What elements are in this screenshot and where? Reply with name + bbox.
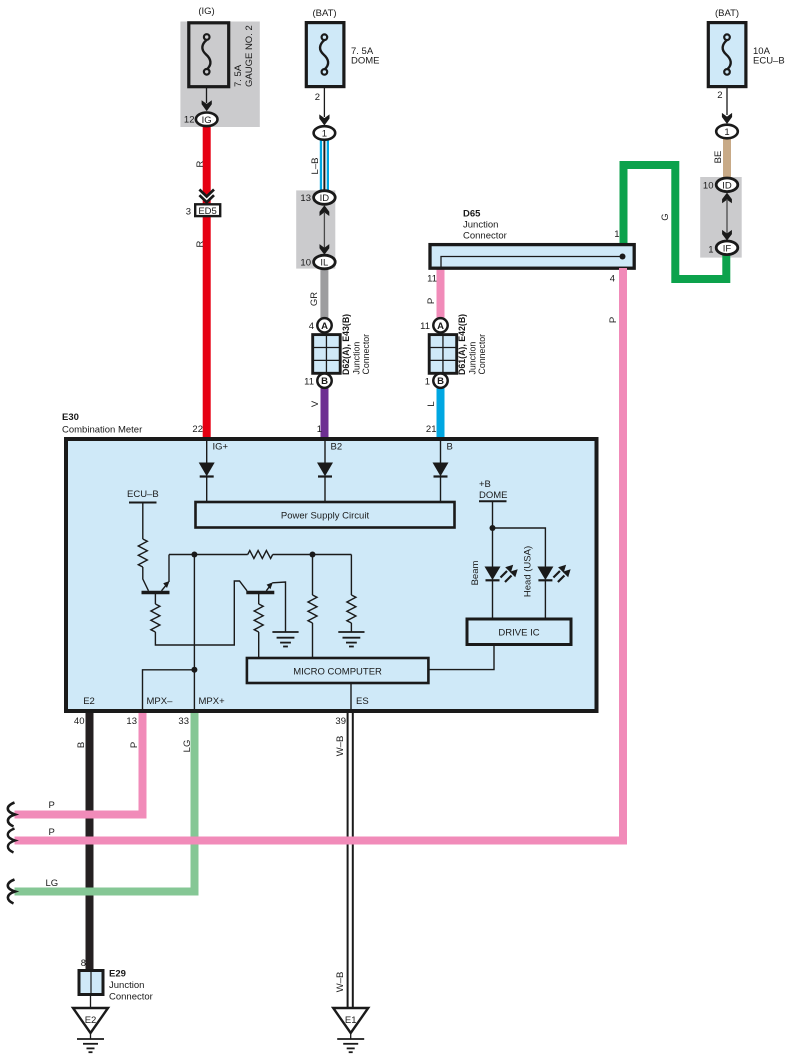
wire micro to ES pin (350, 683, 352, 711)
svg-text:13: 13 (300, 193, 311, 204)
svg-text:Connector: Connector (109, 992, 153, 1003)
wire MPX- up and to junction3 (143, 670, 195, 711)
svg-text:Beam: Beam (470, 561, 481, 586)
LED Beam (485, 565, 518, 619)
svg-text:12: 12 (184, 114, 195, 125)
svg-text:10: 10 (300, 258, 311, 269)
junction connector D61/E42 grid (429, 335, 457, 374)
ground E1 (337, 1039, 364, 1052)
wire L-B blue/black stripe: connector 1 to ID (320, 139, 329, 192)
junction connector E29 (79, 971, 103, 995)
svg-text:11: 11 (304, 377, 314, 388)
svg-text:3: 3 (186, 207, 191, 218)
E30 combination meter label (62, 412, 142, 436)
wire B black: E2 pin to E29 (86, 713, 94, 969)
node: D65 junction dot (620, 254, 626, 260)
MICRO COMPUTER box (247, 658, 429, 683)
junction connector D62/E43 circle A (317, 318, 331, 332)
node +B tap bar (479, 500, 507, 502)
wire triangle E1 to ground (350, 1033, 352, 1039)
node +B junction (490, 525, 496, 531)
svg-text:Combination Meter: Combination Meter (62, 425, 142, 436)
svg-text:1: 1 (614, 229, 619, 240)
resistor R5 (under Q1) (151, 604, 160, 632)
svg-text:(IG): (IG) (198, 6, 214, 17)
connector ED5 (195, 204, 220, 217)
svg-text:D61(A), E42(B): D61(A), E42(B) (457, 314, 467, 375)
arrow down into IF top (722, 230, 732, 241)
svg-text:DOME: DOME (479, 490, 508, 501)
svg-text:MPX–: MPX– (147, 696, 174, 707)
svg-text:1: 1 (425, 377, 430, 388)
resistor R3 (to ground) (347, 595, 356, 623)
wire rail right (273, 554, 352, 556)
svg-text:E29: E29 (109, 969, 126, 980)
svg-text:D65: D65 (463, 209, 481, 220)
svg-text:11: 11 (420, 321, 430, 332)
LED Head (USA) (537, 565, 570, 619)
svg-text:Connector: Connector (463, 231, 507, 242)
svg-text:ED5: ED5 (198, 206, 216, 217)
svg-text:33: 33 (178, 716, 189, 727)
arrow into IG (202, 100, 212, 111)
wire R1 to Q1 (143, 567, 149, 591)
svg-text:L: L (426, 401, 437, 406)
arrow into connector 1 (319, 114, 329, 125)
svg-text:GAUGE NO. 2: GAUGE NO. 2 (244, 25, 255, 87)
ground (under Q2 emitter) (272, 632, 298, 647)
svg-text:2: 2 (315, 92, 320, 103)
transistor Q1 (142, 581, 170, 593)
svg-text:1: 1 (317, 424, 322, 435)
junction connector D65 label (463, 209, 507, 242)
svg-text:ES: ES (356, 696, 369, 707)
wire LG light green: MPX+ pin to left edge (15, 713, 195, 892)
junction connector E29 label (109, 969, 153, 1003)
svg-text:DRIVE IC: DRIVE IC (498, 628, 539, 639)
E30 combination meter box (66, 439, 597, 711)
wire: fuse DOME to arrow (323, 85, 325, 117)
resistor R2 (rail horizontal) (248, 551, 273, 559)
svg-text:1: 1 (724, 127, 729, 138)
svg-text:22: 22 (192, 424, 203, 435)
wire P pink: MPX- pin to left edge (15, 713, 143, 815)
wire pin1 to diode (324, 440, 326, 463)
svg-text:E2: E2 (85, 1015, 97, 1026)
svg-text:B: B (321, 376, 328, 387)
svg-text:1: 1 (708, 245, 713, 256)
connector oval IL (314, 255, 336, 269)
wire G green: D65 pin 1 to IF pin 1 (624, 165, 727, 279)
svg-text:Junction: Junction (463, 220, 498, 231)
wire R red: connector IG to ED5 (203, 125, 211, 204)
wire ID to IF (726, 199, 728, 234)
svg-text:ECU–B: ECU–B (753, 56, 785, 67)
svg-text:MICRO COMPUTER: MICRO COMPUTER (293, 667, 382, 678)
svg-text:A: A (321, 321, 328, 332)
junction connector D62 side label (341, 314, 371, 375)
wire GR gray: IL to D62 pin 4 (320, 268, 328, 319)
svg-text:IF: IF (723, 243, 732, 254)
wire +B down (492, 501, 494, 566)
node rail junction 1 (191, 552, 197, 558)
ground point triangle E2 (73, 1008, 108, 1033)
wire BE beige: connector 1 to ID (723, 138, 731, 179)
svg-text:Junction: Junction (352, 342, 362, 375)
svg-text:G: G (660, 213, 671, 220)
wire L light blue: D61 pin 1 to E30 pin 21 (437, 386, 445, 438)
arrow down into IL top (320, 244, 330, 255)
svg-text:GR: GR (309, 292, 320, 306)
break symbol at left end of long P wire (8, 829, 15, 853)
wire pin22 to diode (206, 440, 208, 463)
fuse 10A ECU-B box (708, 23, 746, 87)
ground E2 (77, 1039, 104, 1052)
svg-text:39: 39 (335, 716, 346, 727)
svg-text:ECU–B: ECU–B (127, 489, 159, 500)
junction connector D61 side label (457, 314, 487, 375)
wire micro to drive ic (428, 645, 494, 670)
wire +B to LED2 (493, 528, 546, 567)
svg-text:2: 2 (717, 90, 722, 101)
junction connector D62/E43 circle B (317, 374, 331, 388)
connector oval ID (dome) (314, 191, 336, 205)
connector oval IG (196, 113, 218, 127)
svg-text:E2: E2 (83, 696, 95, 707)
Power Supply Circuit box (196, 502, 455, 528)
svg-text:21: 21 (426, 424, 437, 435)
arrow up into ID bottom (722, 193, 732, 204)
resistor R6 (under Q2) (254, 604, 263, 632)
junction connector D61/E42 circle B (433, 374, 447, 388)
wire Q2 emitter to ground (272, 582, 285, 632)
diode D1 (IG+) (199, 463, 215, 503)
wire V violet: D62 pin 11 to E30 pin 1 (321, 386, 329, 438)
gray background behind junction ID/IF (700, 177, 742, 258)
svg-text:BE: BE (713, 151, 724, 164)
svg-text:4: 4 (610, 273, 615, 284)
wire pin21 to diode (440, 440, 442, 463)
ground (under R3) (338, 632, 364, 647)
svg-text:ID: ID (722, 180, 732, 191)
resistor R1 (ECU-B) (138, 539, 147, 567)
node ECU-B tap bar (129, 502, 157, 504)
ground point triangle E1 (333, 1008, 368, 1033)
svg-text:P: P (426, 298, 437, 304)
D65 internal bus wire (441, 257, 623, 269)
wire R3 to ground (350, 623, 352, 632)
wire Q2 base down (258, 594, 260, 604)
node rail junction 2 (310, 552, 316, 558)
arrow up into ID bottom (320, 205, 330, 216)
svg-text:13: 13 (126, 716, 137, 727)
wire R5 to Q2 base (155, 581, 247, 645)
fuse element DOME (320, 34, 328, 74)
svg-text:Connector: Connector (477, 334, 487, 375)
svg-text:(BAT): (BAT) (715, 8, 739, 19)
svg-text:B: B (76, 742, 87, 748)
break symbol (LG) (8, 880, 15, 904)
wire junction2 to R4 and micro (312, 555, 314, 659)
wire: fuse GAUGE to arrow (206, 86, 208, 103)
fuse element ECU-B (723, 34, 731, 74)
connector oval IF (716, 241, 738, 255)
svg-text:B2: B2 (331, 442, 343, 453)
svg-text:R: R (195, 240, 206, 247)
net label +B DOME (479, 479, 508, 501)
svg-text:ID: ID (320, 193, 330, 204)
svg-text:Head (USA): Head (USA) (523, 546, 534, 597)
svg-text:10: 10 (703, 180, 714, 191)
svg-text:E1: E1 (345, 1015, 357, 1026)
gray background behind fuse GAUGE NO.2 and connector IG (180, 22, 259, 128)
DRIVE IC box (467, 619, 571, 645)
arrow into connector 1 (722, 113, 732, 124)
svg-text:B: B (447, 442, 453, 453)
svg-text:Connector: Connector (361, 334, 371, 375)
wire Q1 emitter up to rail (168, 555, 170, 583)
connector oval 1 (ecu-b) (716, 125, 738, 139)
svg-text:Power Supply Circuit: Power Supply Circuit (281, 511, 370, 522)
svg-text:Junction: Junction (468, 342, 478, 375)
wire ECU-B down (142, 503, 144, 540)
fuse element GAUGE NO.2 (202, 34, 210, 74)
svg-text:P: P (49, 827, 55, 838)
svg-text:B: B (437, 376, 444, 387)
svg-text:P: P (129, 742, 140, 748)
connector oval ID (ecu-b) (716, 178, 738, 192)
break symbol (upper P) (8, 803, 15, 827)
wire rail left (169, 554, 248, 556)
wire R red: ED5 to E30 pin 22 (203, 217, 211, 439)
transistor Q2 (246, 582, 274, 592)
svg-text:4: 4 (309, 321, 314, 332)
svg-text:D62(A), E43(B): D62(A), E43(B) (341, 314, 351, 375)
junction connector D62/E43 grid (313, 335, 341, 374)
svg-text:Junction: Junction (109, 980, 144, 991)
svg-text:V: V (310, 400, 321, 407)
fuse 7.5A DOME box (306, 23, 344, 87)
wire: fuse ECU-B to arrow (726, 85, 728, 115)
svg-text:+B: +B (479, 479, 491, 490)
svg-text:W–B: W–B (335, 736, 346, 757)
connector oval 1 (dome) (314, 126, 336, 140)
svg-text:1: 1 (322, 129, 327, 140)
svg-text:E30: E30 (62, 412, 79, 423)
wire triangle E2 to ground (90, 1033, 92, 1039)
wire W-B double: ES pin to E1 (348, 713, 353, 1008)
svg-text:8: 8 (81, 958, 86, 969)
svg-text:40: 40 (74, 716, 85, 727)
svg-text:P: P (608, 317, 619, 323)
junction connector D61/E42 circle A (433, 318, 447, 332)
svg-text:LG: LG (182, 740, 193, 753)
double chevron arrow on wire R (199, 190, 214, 203)
wire R6 to micro (258, 632, 260, 658)
svg-text:P: P (49, 800, 55, 811)
svg-text:W–B: W–B (335, 972, 346, 993)
gray background behind junction ID/IL (296, 190, 335, 268)
svg-text:MPX+: MPX+ (199, 696, 226, 707)
svg-text:IG+: IG+ (213, 442, 229, 453)
wire P pink: D65 pin 11 to D61 pin 11 (437, 268, 445, 319)
diode D2 (B2) (317, 463, 333, 503)
svg-text:11: 11 (427, 273, 437, 284)
svg-text:A: A (437, 321, 444, 332)
svg-text:LG: LG (46, 878, 59, 889)
wire rail corner down (350, 555, 352, 596)
svg-text:IL: IL (320, 258, 328, 269)
wire E29 to ground triangle E2 (90, 996, 92, 1008)
fuse 7.5A GAUGE NO.2 box (189, 23, 229, 87)
resistor R4 (junction2 to micro) (308, 595, 317, 623)
svg-text:L–B: L–B (310, 158, 321, 175)
wire Q1 base down (154, 594, 156, 604)
svg-text:(BAT): (BAT) (312, 8, 336, 19)
wire ID to IL (323, 212, 325, 248)
diode D3 (B) (433, 463, 449, 503)
svg-text:7. 5A: 7. 5A (233, 64, 244, 87)
wire junction1 down to MPX+ pin (193, 555, 195, 712)
svg-text:IG: IG (202, 115, 212, 126)
node junction 3 (191, 667, 197, 673)
wire P pink long: D65 pin 4 down and across to left edge (15, 268, 624, 841)
junction connector D65 box (430, 245, 634, 269)
svg-text:DOME: DOME (351, 56, 380, 67)
svg-text:R: R (195, 160, 206, 167)
